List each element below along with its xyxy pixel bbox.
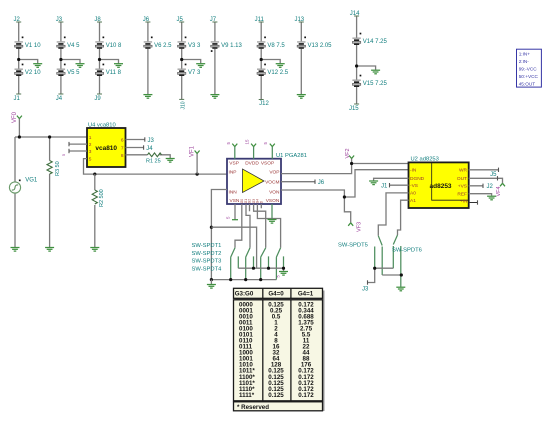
svg-text:1: 1	[89, 135, 92, 141]
svg-text:VSOP: VSOP	[261, 161, 274, 167]
svg-text:V11 8: V11 8	[106, 70, 122, 76]
svg-text:V5 5: V5 5	[67, 70, 80, 76]
svg-text:VF1: VF1	[190, 145, 196, 157]
svg-text:V4 5: V4 5	[67, 43, 80, 49]
svg-text:REF: REF	[457, 192, 467, 198]
svg-text:SW-SPDT5: SW-SPDT5	[338, 242, 368, 248]
svg-text:V6 2.5: V6 2.5	[154, 43, 172, 49]
svg-text:J2: J2	[487, 184, 494, 190]
svg-text:VOP: VOP	[269, 169, 279, 175]
svg-text:DGND: DGND	[410, 176, 425, 182]
svg-text:5: 5	[277, 275, 281, 277]
svg-text:J10: J10	[180, 101, 186, 109]
svg-text:OUT: OUT	[457, 176, 467, 182]
svg-text:J14: J14	[350, 11, 360, 17]
svg-text:U2 ad8253: U2 ad8253	[411, 156, 439, 162]
svg-text:J2: J2	[14, 17, 21, 23]
svg-text:+VS: +VS	[458, 184, 467, 190]
svg-text:R1 25: R1 25	[146, 159, 161, 165]
svg-text:5: 5	[62, 154, 66, 156]
svg-text:15: 15	[245, 139, 250, 145]
svg-text:1111*: 1111*	[239, 392, 255, 399]
svg-text:ad8253: ad8253	[430, 183, 452, 190]
svg-text:J5: J5	[490, 172, 497, 178]
svg-text:J1: J1	[381, 183, 388, 189]
svg-text:J4: J4	[146, 146, 153, 152]
svg-text:J8: J8	[94, 17, 101, 23]
svg-text:45:OUT: 45:OUT	[519, 82, 536, 87]
svg-text:SW-SPDT6: SW-SPDT6	[392, 248, 422, 254]
svg-text:J5: J5	[177, 17, 184, 23]
svg-text:3: 3	[89, 149, 92, 155]
svg-text:V3 3: V3 3	[188, 43, 201, 49]
svg-text:6: 6	[121, 138, 124, 144]
svg-text:INP: INP	[229, 169, 237, 175]
svg-text:VSN: VSN	[230, 198, 240, 204]
svg-text:VF3: VF3	[356, 222, 362, 232]
svg-text:V7 3: V7 3	[188, 70, 201, 76]
svg-text:50:+VCC: 50:+VCC	[519, 74, 539, 79]
svg-text:V14 7.25: V14 7.25	[363, 39, 388, 45]
svg-text:VF4: VF4	[496, 186, 502, 196]
svg-text:vca810: vca810	[95, 145, 117, 152]
svg-text:WR: WR	[459, 168, 468, 174]
svg-text:V12 2.5: V12 2.5	[267, 70, 288, 76]
svg-text:V8 7.5: V8 7.5	[267, 43, 285, 49]
svg-text:SW-SPDT1: SW-SPDT1	[192, 243, 222, 249]
svg-text:VON: VON	[269, 189, 280, 195]
svg-text:J9: J9	[94, 96, 101, 102]
svg-text:SW-SPDT4: SW-SPDT4	[192, 266, 223, 272]
svg-text:J6: J6	[318, 180, 325, 186]
svg-text:J3: J3	[362, 286, 369, 292]
svg-text:V9 1.13: V9 1.13	[221, 43, 242, 49]
svg-text:DVDD: DVDD	[245, 161, 259, 167]
svg-text:-IN: -IN	[410, 168, 417, 174]
svg-text:V2 10: V2 10	[25, 70, 41, 76]
svg-text:J7: J7	[210, 17, 217, 23]
svg-text:99:-VCC: 99:-VCC	[519, 67, 538, 72]
svg-text:VG1: VG1	[25, 177, 38, 183]
svg-text:J4: J4	[56, 96, 63, 102]
svg-text:SW-SPDT3: SW-SPDT3	[192, 259, 222, 265]
svg-text:VSON: VSON	[266, 198, 280, 204]
svg-text:J12: J12	[259, 101, 269, 107]
svg-text:J1: J1	[14, 96, 21, 102]
svg-text:J3: J3	[56, 17, 63, 23]
svg-text:V13 2.05: V13 2.05	[308, 43, 333, 49]
svg-text:J15: J15	[349, 106, 359, 112]
svg-text:2:IN-: 2:IN-	[519, 59, 530, 64]
svg-text:VF0: VF0	[12, 111, 18, 123]
svg-text:5: 5	[89, 157, 92, 163]
svg-text:A0: A0	[410, 191, 416, 197]
svg-text:+IN: +IN	[460, 198, 468, 204]
svg-text:8: 8	[121, 153, 124, 159]
svg-text:R3 50: R3 50	[55, 161, 61, 176]
svg-text:* Reserved: * Reserved	[237, 404, 269, 411]
svg-text:INN: INN	[229, 189, 238, 195]
svg-text:V10 8: V10 8	[106, 43, 122, 49]
svg-text:7: 7	[121, 146, 124, 152]
svg-text:1:IN+: 1:IN+	[519, 52, 531, 57]
svg-text:G3:G0: G3:G0	[235, 291, 254, 298]
svg-text:J13: J13	[294, 17, 304, 23]
svg-text:A1: A1	[410, 198, 416, 204]
svg-text:-VS: -VS	[410, 183, 418, 189]
svg-text:VF2: VF2	[345, 148, 351, 158]
svg-text:V15 7.25: V15 7.25	[363, 81, 388, 87]
svg-text:J11: J11	[255, 17, 265, 23]
svg-text:0.172: 0.172	[298, 392, 314, 399]
svg-text:SW-SPDT2: SW-SPDT2	[192, 251, 222, 257]
svg-text:V1 10: V1 10	[25, 43, 41, 49]
svg-text:2: 2	[89, 142, 92, 148]
svg-text:G4=1: G4=1	[298, 291, 314, 298]
svg-text:G4=0: G4=0	[268, 291, 284, 298]
svg-text:J6: J6	[143, 17, 150, 23]
svg-text:U4 vca810: U4 vca810	[88, 122, 116, 128]
svg-text:R2 500: R2 500	[99, 189, 105, 207]
svg-text:VSP: VSP	[229, 161, 239, 167]
svg-text:U1 PGA281: U1 PGA281	[276, 153, 307, 159]
svg-text:0.125: 0.125	[268, 392, 284, 399]
svg-text:J3: J3	[148, 138, 155, 144]
svg-text:VOCM: VOCM	[265, 179, 279, 185]
